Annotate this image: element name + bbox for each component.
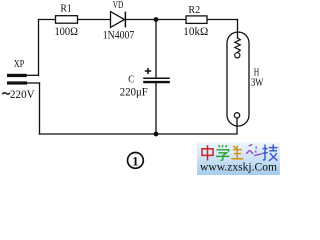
svg-text:C: C bbox=[128, 74, 134, 86]
svg-text:10kΩ: 10kΩ bbox=[183, 26, 208, 38]
svg-text:1: 1 bbox=[132, 153, 139, 168]
svg-text:R1: R1 bbox=[60, 3, 72, 15]
svg-text:VD: VD bbox=[113, 0, 124, 11]
svg-text:XP: XP bbox=[14, 58, 25, 70]
svg-text:www.zxskj.Com: www.zxskj.Com bbox=[200, 162, 277, 174]
svg-text:R2: R2 bbox=[188, 4, 200, 16]
svg-text:1N4007: 1N4007 bbox=[103, 30, 135, 42]
svg-text:220V: 220V bbox=[10, 89, 35, 101]
svg-text:220μF: 220μF bbox=[120, 87, 148, 99]
svg-text:3W: 3W bbox=[251, 77, 264, 89]
svg-text:100Ω: 100Ω bbox=[54, 26, 78, 38]
